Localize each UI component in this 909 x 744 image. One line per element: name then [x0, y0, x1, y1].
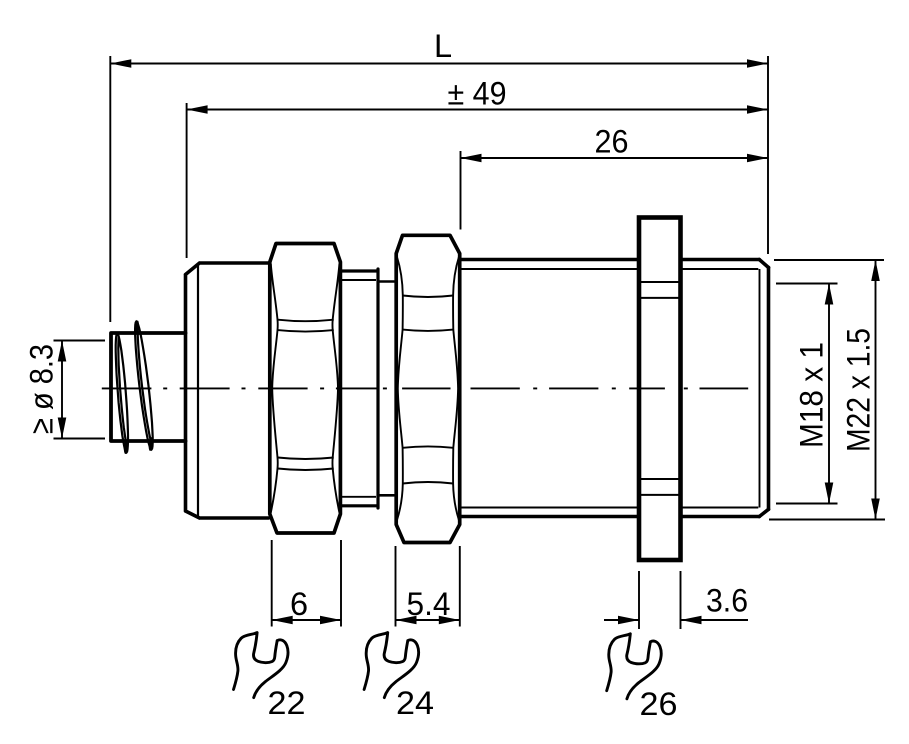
- svg-text:5.4: 5.4: [407, 586, 451, 622]
- svg-text:6: 6: [290, 586, 308, 622]
- svg-text:≥ ø 8.3: ≥ ø 8.3: [24, 344, 60, 434]
- svg-text:24: 24: [396, 685, 434, 721]
- svg-text:22: 22: [268, 685, 306, 721]
- svg-text:M22 x 1.5: M22 x 1.5: [841, 328, 877, 452]
- svg-text:L: L: [434, 28, 452, 64]
- svg-text:M18 x 1: M18 x 1: [794, 342, 830, 448]
- svg-text:3.6: 3.6: [706, 583, 748, 619]
- svg-text:± 49: ± 49: [448, 76, 507, 112]
- svg-text:26: 26: [595, 124, 629, 160]
- svg-text:26: 26: [640, 686, 678, 722]
